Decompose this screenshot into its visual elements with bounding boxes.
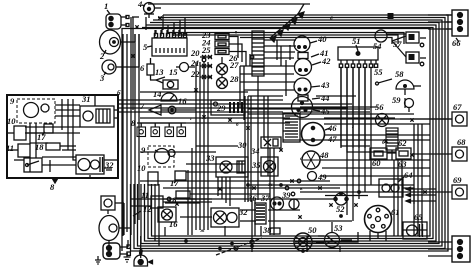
junction marks — [131, 16, 426, 218]
svg-text:г: г — [190, 117, 192, 122]
wire letters — [190, 17, 385, 234]
wire mid horizontals 2 — [130, 96, 452, 206]
label 41 — [298, 48, 329, 59]
wire distributor stems — [370, 231, 386, 241]
label 22 terminals — [190, 69, 212, 79]
svg-text:57: 57 — [393, 39, 402, 49]
flasher 27 — [217, 57, 240, 75]
svg-text:10: 10 — [7, 116, 16, 126]
label 38 — [262, 225, 280, 235]
inset box (variant 8) — [7, 89, 121, 192]
svg-text:44: 44 — [320, 93, 330, 103]
svg-text:10: 10 — [137, 163, 146, 173]
wire lamp feeders bottom — [124, 203, 131, 247]
svg-text:14: 14 — [153, 89, 162, 99]
gauge 45 — [292, 97, 331, 118]
inset wires — [7, 96, 118, 178]
svg-text:25: 25 — [201, 45, 211, 55]
breaker 53 — [325, 223, 344, 248]
wire left vertical bundle — [123, 34, 139, 236]
switch 18 — [168, 191, 190, 205]
wire right nested corners — [316, 67, 427, 243]
label 44 — [298, 93, 330, 103]
inset switch — [24, 158, 42, 172]
wire center verticals — [196, 62, 274, 235]
resistor 17 — [170, 171, 186, 188]
svg-text:42: 42 — [321, 56, 331, 66]
svg-text:ж: ж — [200, 229, 205, 234]
inset relay 11 — [6, 143, 30, 157]
svg-text:58: 58 — [395, 69, 404, 79]
gauge 43 — [294, 78, 330, 95]
wire 66 feeds — [428, 15, 452, 29]
lamp 68 — [412, 137, 467, 161]
connector 66 — [446, 10, 468, 48]
svg-text:32: 32 — [238, 207, 248, 217]
wire right horizontals — [283, 107, 430, 176]
resistor 29 — [211, 100, 245, 115]
wire 11-to-center links — [163, 199, 212, 203]
svg-text:52: 52 — [336, 204, 345, 214]
switch 10 — [137, 163, 158, 185]
lamp 2 — [99, 30, 131, 61]
lamp 3 — [99, 60, 131, 83]
svg-text:6: 6 — [117, 89, 121, 97]
inset switch 10 — [7, 116, 26, 140]
instrument lamps 8 — [131, 118, 186, 137]
wire lamp feeders — [131, 17, 139, 67]
svg-text:28: 28 — [229, 74, 239, 84]
svg-text:50: 50 — [308, 225, 317, 235]
wire right verticals — [394, 124, 422, 236]
svg-text:16: 16 — [169, 219, 178, 229]
shunt block — [386, 128, 398, 160]
magneto 65 — [403, 212, 427, 239]
lamp unit 33 — [205, 153, 248, 177]
wire center nest verticals — [240, 45, 290, 176]
ignition coil 50 — [294, 225, 317, 251]
gauge 35 — [251, 157, 278, 176]
fuse 25 — [201, 45, 246, 66]
bimetal 59 — [392, 95, 414, 112]
rear headlamp — [103, 243, 130, 259]
svg-text:21: 21 — [190, 58, 200, 68]
svg-text:54: 54 — [373, 41, 382, 51]
inset resistor 17 — [37, 124, 53, 142]
fuse 24 — [201, 38, 242, 63]
lamp 56 — [375, 102, 389, 127]
svg-text:30: 30 — [237, 140, 247, 150]
wire 51 long drops — [347, 67, 371, 221]
wire switch 51 drops — [341, 67, 371, 148]
headlamp 1 — [104, 1, 129, 29]
svg-text:51: 51 — [352, 36, 361, 46]
label 30 — [237, 140, 247, 150]
junction dots — [140, 184, 361, 253]
switch 57 — [392, 32, 426, 66]
svg-text:13: 13 — [155, 67, 164, 77]
wire top-left risers — [133, 15, 163, 110]
svg-text:35: 35 — [251, 160, 261, 170]
relay 62 — [396, 138, 411, 169]
fuse 23 — [201, 30, 238, 58]
lamp 69 — [412, 175, 467, 199]
relay 11 — [141, 190, 163, 208]
wire top/right/bottom perimeter bus (6 nested wires) — [131, 15, 449, 251]
bulkhead connector strip — [252, 31, 264, 96]
svg-text:31: 31 — [81, 94, 91, 104]
heater switch 16 — [158, 207, 178, 229]
bus junction block — [388, 14, 393, 19]
wire 33 box drops — [188, 148, 230, 235]
gauge 15 — [169, 63, 195, 78]
gauge 42 — [295, 56, 332, 76]
svg-text:27: 27 — [229, 60, 239, 70]
fuse 54 — [373, 30, 406, 51]
wire central vertical to bottom — [251, 200, 253, 252]
lamp 49 — [308, 172, 328, 183]
svg-text:69: 69 — [453, 175, 462, 185]
inset switch 18 — [35, 142, 60, 152]
switch 52 — [334, 192, 349, 214]
wire right horizontal group — [186, 185, 414, 199]
lamp 4 — [137, 0, 161, 18]
inset motor 32 — [76, 155, 114, 174]
svg-text:64: 64 — [404, 170, 413, 180]
svg-text:15: 15 — [169, 67, 178, 77]
label 20 terminals — [190, 48, 212, 59]
wiper motor 9 — [141, 145, 175, 167]
wire extra bottom risers — [155, 184, 159, 246]
wire bottom area horizontals — [140, 181, 352, 236]
off-page arrows — [148, 4, 310, 42]
svg-text:67: 67 — [453, 102, 462, 112]
svg-text:48: 48 — [319, 150, 329, 160]
mechanical link — [216, 238, 262, 255]
wire mid-left horizontals — [118, 100, 290, 123]
voltage regulator 5 — [143, 18, 187, 57]
gauge 40 — [294, 34, 327, 52]
wire 53 links — [318, 222, 332, 236]
svg-text:55: 55 — [374, 67, 383, 77]
flasher 28 — [217, 74, 240, 89]
light switch 51 — [338, 36, 378, 67]
wire mid extensions — [140, 92, 356, 108]
svg-text:33: 33 — [205, 153, 215, 163]
gauge 14 — [153, 80, 178, 101]
horn 58 — [395, 69, 421, 95]
ammeter 46/47 — [302, 123, 338, 146]
svg-text:59: 59 — [392, 95, 401, 105]
svg-text:40: 40 — [317, 34, 327, 44]
wire left-of-ladder corners — [236, 31, 250, 66]
svg-text:4: 4 — [137, 0, 142, 9]
side lamp — [101, 196, 124, 214]
dome lamp — [134, 236, 153, 266]
label 12 — [133, 204, 152, 216]
ground under headlamp — [95, 256, 101, 264]
horn 7 — [140, 101, 196, 115]
switch 55 — [374, 67, 392, 85]
svg-text:11: 11 — [6, 143, 14, 153]
wire ladder-to-gauge links — [264, 40, 296, 66]
ignition switch 48 — [302, 150, 329, 169]
horn button 16 — [168, 96, 187, 114]
wire ladder drops — [165, 200, 307, 252]
inset wiper motor 9 — [10, 96, 55, 123]
svg-text:53: 53 — [334, 223, 343, 233]
resistor 36 — [247, 193, 266, 224]
connector 70 — [428, 236, 470, 262]
wire main frame loop — [122, 29, 430, 252]
inset washer 31 — [80, 94, 114, 127]
tail lamp — [99, 216, 131, 247]
switch 13 — [150, 67, 165, 83]
wire gauge links — [240, 66, 414, 114]
wire right corner stubs — [406, 187, 436, 203]
ground mark bottom-left — [124, 252, 131, 262]
wire regulator feeds — [146, 17, 185, 36]
wire inner top bus — [168, 33, 404, 45]
distributor 61 — [365, 206, 400, 233]
svg-text:г: г — [352, 125, 354, 130]
svg-text:43: 43 — [320, 80, 330, 90]
svg-text:22: 22 — [190, 69, 200, 79]
label 26 — [228, 53, 238, 63]
sender 37 — [260, 193, 284, 210]
fuse 6 — [140, 58, 154, 80]
flasher 64 — [379, 170, 413, 197]
svg-text:1: 1 — [104, 1, 108, 11]
svg-text:20: 20 — [190, 48, 200, 58]
wire coil to distributor — [312, 232, 358, 252]
relay 60 — [370, 148, 387, 168]
terminal rings — [167, 55, 301, 201]
svg-text:68: 68 — [457, 137, 466, 147]
lamp 67 — [400, 102, 467, 126]
label 21 terminals — [190, 58, 212, 68]
sender 39 — [281, 190, 299, 209]
motor 32 — [211, 207, 248, 227]
switch 34 — [250, 137, 281, 156]
ignition block 31 — [283, 113, 300, 142]
